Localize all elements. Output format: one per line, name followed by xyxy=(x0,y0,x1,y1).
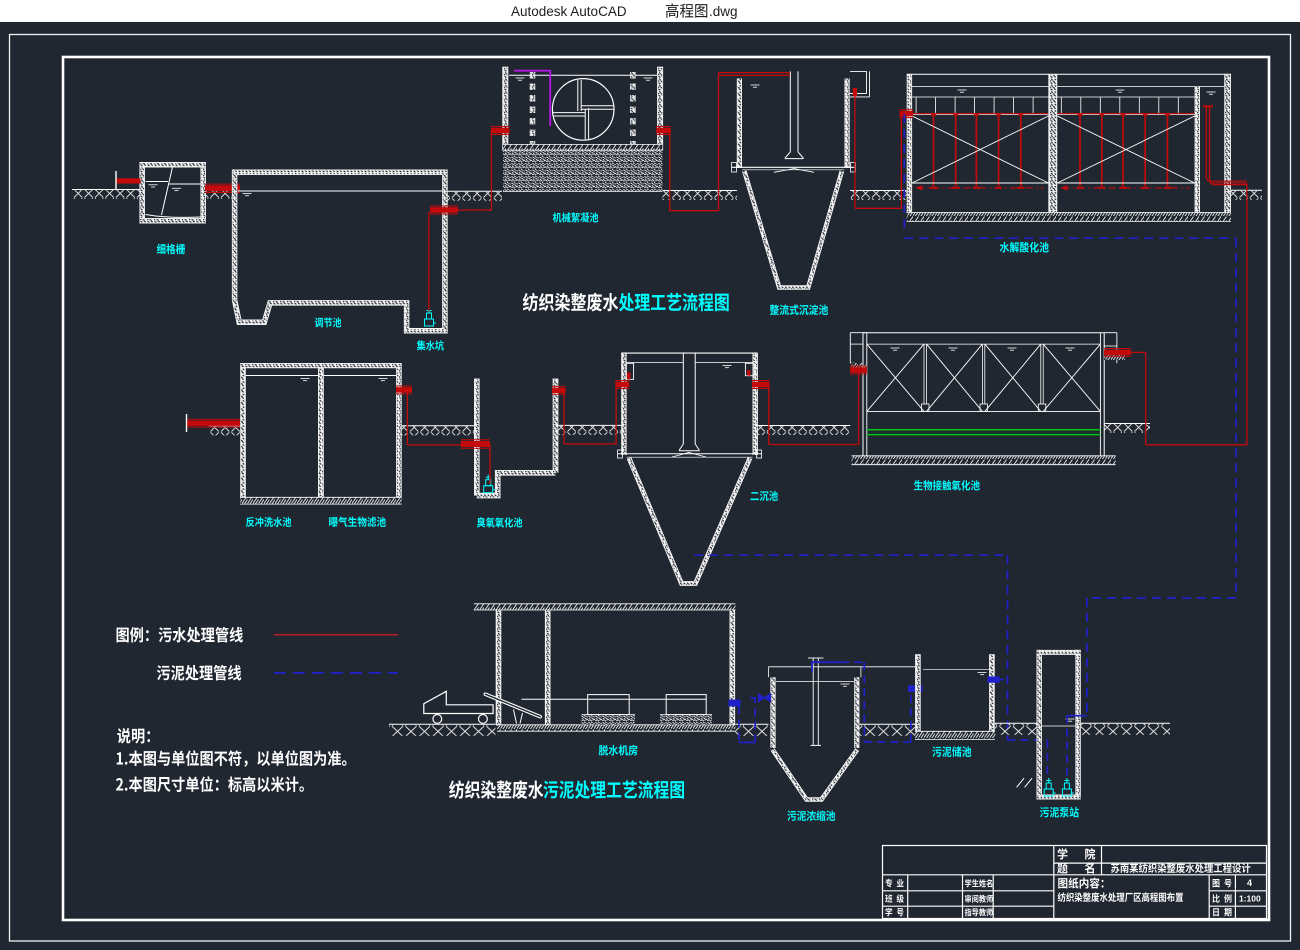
tank 机械絮凝池 floor slab xyxy=(502,144,662,150)
ground line 浓缩池-储池 xyxy=(859,724,915,736)
tank 污泥泵站 interior line xyxy=(1042,719,1076,726)
label 生物接触氧化池 xyxy=(914,480,980,490)
sludge feed line into 浓缩池 (blue) xyxy=(812,662,864,672)
label 二沉池 xyxy=(751,491,778,501)
tank 水解酸化池 chamber2 media & bracing xyxy=(1057,97,1194,190)
ground line right of flocculation tank xyxy=(662,191,737,201)
pipe into 水解酸化池 (red) xyxy=(900,110,914,209)
valve at 浓缩池 left (blue) xyxy=(750,694,771,702)
tank 污泥储池 water line xyxy=(923,670,989,675)
inlet pipe into 细格栅 (red) xyxy=(116,171,141,189)
pipe 细格栅 to 调节池 (red) xyxy=(205,184,240,192)
tank 生物接触氧化池 main walls xyxy=(863,333,1104,456)
belt filter press 2 xyxy=(660,695,712,720)
legend text 图例 sewage xyxy=(117,627,243,643)
ground line right of 泵站 xyxy=(1081,723,1170,735)
sludge line 储池 to 泵站 pump1 (blue dashed) xyxy=(1008,740,1048,776)
tank 污泥浓缩池 rim lines xyxy=(769,667,917,677)
ground line 储池-泵站 xyxy=(995,723,1037,735)
tank 污泥浓缩池 water line xyxy=(776,682,854,687)
pipe out of 机械絮凝池 right (red) xyxy=(656,127,718,211)
tank 二沉池 right weir box xyxy=(745,363,754,375)
title2 纺织染整废水 (white part) xyxy=(449,780,543,799)
tank 调节池 walls xyxy=(235,172,445,330)
belt filter press line xyxy=(522,698,707,700)
title block 审阅教师 xyxy=(965,895,993,903)
tank 水解酸化池 outlet downpipe (red) xyxy=(1203,106,1247,184)
tank 细格栅 screen bar and water marks xyxy=(146,167,201,217)
title block 学生姓名 xyxy=(965,879,992,887)
ground line left of fine screen xyxy=(72,190,140,200)
pipe 整流式沉淀池 outlet (red) xyxy=(853,88,902,208)
tank 曝气生物滤池 water line xyxy=(324,376,396,381)
belt conveyor xyxy=(485,694,540,723)
title block 图纸内容 xyxy=(1058,878,1103,889)
title block 比例 xyxy=(1212,894,1231,903)
sludge line 脱水机房 to 浓缩池 (blue dashed) xyxy=(739,698,755,742)
notes heading 说明 xyxy=(117,728,150,744)
tank 反冲洗水池/曝气生物滤池 floor slab xyxy=(240,497,402,504)
ground line between fine screen and regulation tank xyxy=(206,190,232,200)
tank 调节池 water line xyxy=(238,191,442,196)
tank 机械絮凝池 perforated baffles xyxy=(533,72,633,144)
title block 日期 xyxy=(1213,908,1231,917)
building 脱水机房 walls xyxy=(499,610,733,725)
tank 污泥浓缩池 center scraper shaft xyxy=(808,658,824,745)
ground line right of regulation tank xyxy=(448,191,503,201)
pipe 生物接触氧化池 outlet (red) xyxy=(1104,349,1247,445)
tank 污泥泵站 walls xyxy=(1037,650,1081,800)
tank 整流式沉淀池 bottom section lines xyxy=(732,163,856,173)
label 机械絮凝池 xyxy=(553,212,599,222)
label 集水坑 xyxy=(417,340,444,350)
pump 1 in 泵站 xyxy=(1044,778,1056,796)
inlet pipe into 反冲洗水池 (red) xyxy=(187,414,241,432)
title block project title xyxy=(1111,863,1250,873)
tank 水解酸化池 walls xyxy=(909,74,1227,212)
tank 臭氧氧化池 walls xyxy=(474,379,558,496)
svg-text:Autodesk AutoCAD: Autodesk AutoCAD xyxy=(511,4,627,19)
title block 图号 xyxy=(1213,879,1232,887)
tank 污泥浓缩池 walls xyxy=(773,677,857,748)
title2 污泥处理工艺流程图 (cyan part) xyxy=(543,780,684,798)
title block 班级 xyxy=(885,894,904,903)
pipe into 生物接触氧化池 (red) xyxy=(850,366,867,444)
title 纺织染整废水 (white part) xyxy=(523,293,618,312)
pipe 二沉池 right weir outlet (red) xyxy=(752,381,859,445)
tank 机械絮凝池 water line xyxy=(509,75,657,80)
pipe 曝气生物滤池 outlet (red) xyxy=(396,386,461,445)
slope marks at 泵站 xyxy=(1017,778,1032,787)
note line 2 xyxy=(116,776,304,792)
pipe 二沉池 left weir outlet (red) xyxy=(615,381,629,445)
building 脱水机房 roof slab xyxy=(474,604,736,610)
tank 机械絮凝池 foundation block xyxy=(503,151,662,192)
label 反冲洗水池 xyxy=(246,517,291,527)
tank 整流式沉淀池 water mark xyxy=(751,85,760,87)
pipe 水解酸化池 to 生物接触氧化池 (red) xyxy=(1246,184,1248,445)
label 曝气生物滤池 xyxy=(329,517,386,527)
tank 细格栅 walls xyxy=(140,162,207,224)
legend text sludge xyxy=(157,665,241,681)
tank 生物接触氧化池 aeration pipes (green) xyxy=(867,430,1101,435)
label 整流式沉淀池 xyxy=(770,304,828,315)
ground line under truck xyxy=(389,724,495,736)
tank 生物接触氧化池 outlet box xyxy=(1104,333,1125,364)
sludge valve at 脱水机房 wall (blue) xyxy=(729,700,741,707)
pump 2 in 泵站 xyxy=(1062,778,1074,796)
tank 污泥储池 floor slab xyxy=(915,731,995,739)
tank 生物接触氧化池 floor slab xyxy=(852,456,1116,465)
svg-text:1:100: 1:100 xyxy=(1239,894,1261,904)
sludge truck xyxy=(424,691,493,723)
pipe 臭氧氧化池 outlet (red) xyxy=(552,386,616,444)
sludge line 二沉池 (blue dashed) xyxy=(694,555,1007,740)
ground line right of hydrolysis tank xyxy=(1231,190,1262,200)
sludge line 水解酸化池 (blue dashed) xyxy=(904,114,1236,716)
title block drawing content xyxy=(1058,892,1183,902)
title block 指导教师 xyxy=(965,908,993,916)
tank 整流式沉淀池 cone walls xyxy=(744,171,842,288)
ground line right of 脱水机房 xyxy=(735,724,768,736)
ground line left of 反冲洗水池 xyxy=(209,426,240,436)
svg-text:.dwg: .dwg xyxy=(709,4,738,19)
tank 反冲洗水池 water line xyxy=(246,376,318,381)
tank 整流式沉淀池 walls xyxy=(739,79,847,169)
legend line sludge (blue dashed) xyxy=(274,672,398,674)
ground line right of 臭氧氧化池 xyxy=(558,425,621,435)
tank 二沉池 cone walls xyxy=(629,458,750,584)
pipe 调节池 sump riser (red) xyxy=(429,206,492,311)
tank 整流式沉淀池 outlet weir channel xyxy=(850,71,870,97)
label 细格栅 xyxy=(157,244,185,255)
label 臭氧氧化池 xyxy=(477,517,522,527)
tank 生物接触氧化池 divider walls xyxy=(867,344,1101,411)
tank 生物接触氧化池 inlet box xyxy=(850,333,867,366)
tank 生物接触氧化池 chamber braces xyxy=(867,344,1101,411)
feed pipe from 机械絮凝池 (red) xyxy=(719,73,791,211)
title block 学院 xyxy=(1058,848,1096,859)
ground line right of 二沉池 xyxy=(758,426,851,436)
title 处理工艺流程图 (cyan part) xyxy=(619,293,729,311)
title block 学号 xyxy=(885,908,903,917)
tank 臭氧氧化池 pit pump xyxy=(484,475,496,493)
tank 二沉池 interior lines xyxy=(618,363,763,459)
tank 机械絮凝池 paddle mixer circle xyxy=(552,79,614,141)
title block 题名 xyxy=(1057,862,1094,873)
tank 二沉池 left weir box xyxy=(626,363,633,379)
sludge line 浓缩池 to 储池 (blue dashed) xyxy=(864,662,922,742)
svg-text:4: 4 xyxy=(1247,878,1252,888)
ground line right of 生物接触氧化池 xyxy=(1104,424,1150,434)
tank 二沉池 walls xyxy=(621,353,758,455)
legend line sewage (red) xyxy=(274,634,398,636)
ground line right of 曝气生物滤池 xyxy=(402,426,474,436)
label 调节池 xyxy=(315,317,341,327)
label 污泥储池 xyxy=(932,746,971,757)
note line 1 xyxy=(117,750,347,767)
tank 污泥浓缩池 cone walls xyxy=(773,750,858,800)
pipe into 机械絮凝池 left (red) xyxy=(491,127,510,135)
tank 水解酸化池 chamber1 media & bracing xyxy=(912,97,1048,190)
valve 储池 right (blue) xyxy=(988,676,1008,682)
dosing line (magenta) xyxy=(514,71,550,126)
label 污泥泵站 xyxy=(1040,807,1079,818)
pipe into 臭氧氧化池 (red) xyxy=(461,440,490,484)
tank 水解酸化池 floor slab xyxy=(907,212,1231,221)
belt filter press 1 xyxy=(582,695,636,720)
tank 调节池 sump pump 集水坑 xyxy=(425,308,437,326)
label 污泥浓缩池 xyxy=(787,810,835,821)
tank 二沉池 feed pipe xyxy=(679,353,700,451)
title block 专业 xyxy=(885,879,903,888)
tank 反冲洗水池/曝气生物滤池 walls xyxy=(240,363,402,500)
drawing tab name 高程图.dwg xyxy=(666,3,738,19)
building 脱水机房 floor slab xyxy=(497,725,735,731)
tank 污泥储池 walls xyxy=(915,655,995,740)
pipe riser to 机械絮凝池 (red) xyxy=(490,131,492,211)
tank 水解酸化池 top lines xyxy=(907,74,1231,94)
tank 机械絮凝池 walls xyxy=(502,67,663,150)
title block grid xyxy=(883,846,1267,919)
label 水解酸化池 xyxy=(1000,242,1049,253)
sludge line into pump2 (blue dashed) xyxy=(1067,716,1087,776)
ground line right of sedimentation tank xyxy=(850,191,907,201)
tank 整流式沉淀池 center feed pipe xyxy=(785,71,804,158)
label 脱水机房 xyxy=(599,745,638,756)
